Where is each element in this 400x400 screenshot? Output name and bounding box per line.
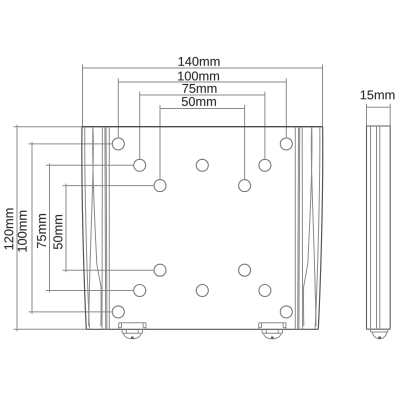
dimension 75mm horizontal line xyxy=(140,92,265,159)
left latch knob xyxy=(122,329,142,339)
hole bottom-right 100mm xyxy=(280,306,292,318)
dimension 75mm vertical line xyxy=(46,163,133,292)
side view latch knob xyxy=(371,329,388,339)
hole bottom-right 50mm xyxy=(239,264,251,276)
left rail bend curve A xyxy=(89,127,94,326)
right rail bend curve B xyxy=(304,127,312,326)
right rail outer edge xyxy=(318,127,322,330)
left rail inner line 3 xyxy=(105,127,108,330)
hole top-left 100mm xyxy=(112,138,124,150)
dimension 140mm line xyxy=(83,65,323,127)
left rail inner boundary xyxy=(108,127,110,330)
left latch tab xyxy=(119,323,146,330)
left rail outer edge xyxy=(82,127,86,330)
hole bottom-left 75mm xyxy=(134,285,146,297)
dimension 50mm vertical line xyxy=(63,184,154,273)
right rail inner line 1 xyxy=(301,127,303,330)
hole top-left 75mm xyxy=(134,159,146,171)
dimension 75mm vertical label xyxy=(37,214,46,248)
hole bottom-left 50mm xyxy=(154,264,166,276)
dimension 75mm horizontal label xyxy=(182,84,216,93)
right rail second line xyxy=(315,127,320,330)
side view inner line 3 xyxy=(379,126,381,329)
plate top edge xyxy=(82,126,323,128)
dimension 120mm vertical label xyxy=(4,209,13,250)
dimension 100mm vertical line xyxy=(29,142,112,314)
hole top-right 75mm xyxy=(259,159,271,171)
hole top-left 50mm xyxy=(154,180,166,192)
hole bottom-center xyxy=(196,285,208,297)
right latch tab xyxy=(259,323,286,330)
dimension 15mm label xyxy=(361,90,395,99)
plate bottom edge xyxy=(86,328,318,330)
side view inner line 1 xyxy=(370,126,372,329)
dimension 140mm label xyxy=(179,57,220,66)
right latch knob xyxy=(262,329,282,339)
right rail inner boundary xyxy=(294,127,296,330)
hole bottom-right 75mm xyxy=(259,285,271,297)
left rail inner line 1 xyxy=(101,127,103,330)
side view outline xyxy=(367,126,391,329)
dimension 15mm line xyxy=(367,104,391,126)
dimension 100mm horizontal label xyxy=(178,71,219,80)
right rail inner line 2 xyxy=(298,127,301,330)
dimension 100mm horizontal line xyxy=(118,79,286,138)
right rail inner line 3 xyxy=(297,127,300,330)
dimension 50mm horizontal label xyxy=(182,97,216,106)
side view inner line 2 xyxy=(376,126,378,329)
left rail second line xyxy=(85,127,90,330)
dimension 120mm vertical line xyxy=(14,125,87,332)
hole bottom-left 100mm xyxy=(112,306,124,318)
hole top-right 100mm xyxy=(280,138,292,150)
hole top-center xyxy=(196,159,208,171)
left rail bend curve B xyxy=(93,127,101,326)
hole top-right 50mm xyxy=(239,180,251,192)
dimension 50mm vertical label xyxy=(53,215,62,249)
dimension 50mm horizontal line xyxy=(160,105,245,179)
dimension 100mm vertical label xyxy=(18,211,27,252)
left rail inner line 2 xyxy=(104,127,107,330)
right rail bend curve A xyxy=(311,127,316,326)
